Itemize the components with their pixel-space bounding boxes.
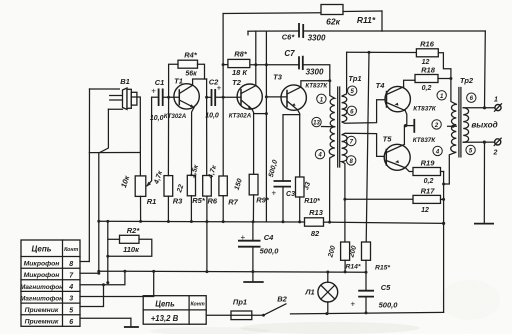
junction bus2 / row3 riser — [152, 270, 155, 273]
junction R17 right / right column — [442, 198, 445, 201]
wire bottom rail — [291, 312, 444, 314]
output terminal 1 — [495, 105, 501, 111]
wire terminal2 to ground — [483, 142, 485, 223]
junction bus1 / R7 bottom — [222, 220, 225, 223]
wire R8 left lead — [223, 64, 228, 66]
resistor R15* — [362, 242, 371, 260]
wire R19 right lead — [441, 171, 444, 173]
svg-text:10,0: 10,0 — [205, 113, 219, 120]
wire T3 base — [266, 96, 287, 98]
junction bus1 / R1 bottom — [139, 220, 142, 223]
wire row4 — [80, 271, 125, 285]
svg-text:КТ837К: КТ837К — [413, 137, 437, 144]
wire T2 emitter branch to T3 base column — [254, 113, 267, 115]
resistor R10* — [296, 177, 305, 197]
pin 1 (Тр1) — [317, 94, 326, 103]
wire output hot — [463, 107, 495, 109]
ground (right) — [474, 223, 494, 225]
capacitor C2 plates — [212, 89, 216, 106]
svg-text:C7: C7 — [284, 49, 295, 58]
svg-text:R2*: R2* — [127, 226, 141, 235]
junction row7 / left column — [97, 272, 100, 275]
wire C6 left end stub — [247, 31, 249, 35]
junction T2 emitter branch — [265, 112, 268, 115]
capacitor C1 plates — [159, 89, 163, 107]
wire C3 bottom — [282, 187, 284, 222]
junction bus2 / R14 bottom — [344, 270, 347, 273]
junction R2 loop — [106, 255, 109, 258]
svg-text:+: + — [272, 189, 277, 198]
resistor R4* — [178, 60, 198, 68]
switch В2 — [262, 314, 265, 317]
svg-text:КТ837К: КТ837К — [305, 83, 328, 90]
wire mic top riser to pin8 row — [88, 89, 90, 262]
wire R14 bottom — [344, 260, 346, 272]
junction Tр2 pin4 / right column — [442, 183, 445, 186]
wire T1 emitter to R5 — [192, 108, 195, 176]
wire C6 left lead — [248, 30, 299, 32]
wire T5 emitter to R19 — [406, 168, 413, 172]
resistor R19 — [413, 168, 441, 176]
wire mic right lead to R1 column — [132, 97, 141, 176]
svg-text:8: 8 — [69, 261, 73, 268]
svg-text:Приемник: Приемник — [25, 307, 59, 314]
svg-text:+: + — [151, 86, 156, 95]
connector table 2 (power) — [143, 296, 206, 325]
wire row8 — [80, 261, 89, 263]
transformer Tр2 primary winding — [444, 104, 457, 184]
junction row4 / row5 riser — [102, 283, 105, 286]
junction C6 / T3 base column — [265, 63, 268, 66]
wire R16 right lead — [438, 53, 456, 105]
fuse Пр1 — [231, 311, 252, 320]
svg-text:Микрофон: Микрофон — [24, 272, 60, 279]
svg-text:4: 4 — [317, 153, 322, 159]
wire T3 base column — [265, 31, 267, 222]
svg-text:В1: В1 — [120, 77, 130, 86]
svg-text:Микрофон: Микрофон — [24, 261, 60, 268]
wire tall column to R15 — [366, 52, 369, 242]
capacitor C4 bottom stub — [252, 247, 254, 272]
wire R17 feed — [345, 198, 413, 200]
svg-text:C5: C5 — [381, 283, 391, 292]
svg-text:3: 3 — [69, 296, 73, 303]
svg-text:R6: R6 — [208, 197, 218, 206]
wire R10 bottom — [299, 197, 301, 222]
resistor R9* — [249, 174, 258, 195]
svg-text:выход: выход — [471, 120, 497, 129]
wiper arrowhead — [146, 182, 151, 187]
junction bus1 / R10 bottom — [298, 220, 301, 223]
resistor R6 — [203, 176, 212, 197]
capacitor C5 top stub — [365, 272, 367, 291]
junction bus2 / C4 / ground — [251, 270, 254, 273]
transformer Tр1 secondary lower winding — [342, 133, 384, 242]
junction bus1 / R6 bottom — [205, 220, 208, 223]
junction bus2 / row4 riser — [123, 270, 126, 273]
wire fuse to switch — [252, 314, 264, 316]
potentiometer R1 — [135, 176, 146, 197]
transformer Tр1 secondary upper winding — [342, 52, 385, 123]
svg-text:R8*: R8* — [234, 50, 248, 59]
junction bus1 / R2 left column — [106, 220, 109, 223]
junction Tр1-pin5 / R16 rail — [368, 51, 371, 54]
pin 7 (Тр1) — [347, 136, 356, 145]
svg-text:6: 6 — [69, 319, 73, 326]
svg-text:R4*: R4* — [184, 51, 198, 60]
ground (row6) — [130, 318, 132, 327]
svg-text:18 К: 18 К — [232, 68, 248, 77]
svg-text:КТ837К: КТ837К — [413, 105, 437, 112]
junction bus1 / R9 bottom / C4 — [252, 220, 255, 223]
svg-text:КТ302А: КТ302А — [229, 113, 252, 120]
wire R9 bottom — [252, 195, 254, 222]
svg-text:Тр1: Тр1 — [348, 74, 361, 83]
wire R7 bottom — [222, 196, 224, 222]
svg-text:R13: R13 — [309, 208, 324, 217]
lamp Л1 — [327, 272, 329, 282]
wire R3 top column — [167, 97, 169, 175]
svg-text:10,0: 10,0 — [150, 115, 164, 122]
junction bus1 / Tр1 pin4 — [328, 221, 331, 224]
node terminal bar — [413, 119, 415, 133]
svg-text:13: 13 — [313, 121, 320, 127]
junction output 1 / feedback rail — [483, 106, 486, 109]
resistor R7 — [219, 176, 227, 196]
svg-text:C4: C4 — [264, 233, 274, 242]
svg-text:+13,2 В: +13,2 В — [151, 314, 179, 323]
svg-text:0,2: 0,2 — [424, 178, 434, 185]
resistor R13 — [305, 218, 324, 226]
microphone B1 — [90, 89, 123, 109]
wire C2 right lead to T2 base — [215, 96, 241, 98]
svg-text:C2: C2 — [209, 78, 219, 87]
resistor R8* — [228, 59, 250, 67]
junction bus1 right end — [442, 222, 445, 225]
wire T3 collector — [301, 81, 330, 87]
capacitor C4 plates — [238, 241, 261, 247]
svg-text:+: + — [351, 300, 356, 309]
wire right feedback rail down to output node — [484, 31, 487, 108]
svg-text:C1: C1 — [155, 78, 165, 87]
svg-text:62к: 62к — [326, 17, 340, 27]
svg-text:82: 82 — [311, 229, 320, 238]
svg-text:R10*: R10* — [304, 198, 320, 205]
wire corner down — [381, 11, 383, 31]
wire mid-node branch — [406, 125, 415, 127]
wire C6 right lead to corner — [303, 30, 382, 32]
svg-text:C3: C3 — [286, 191, 295, 198]
pin 13 (Тр1) — [312, 117, 321, 126]
wire C1 left lead — [152, 96, 159, 98]
wire top feedback rail left — [223, 12, 321, 15]
svg-text:В2: В2 — [277, 295, 287, 304]
transistor T2 — [237, 84, 262, 109]
wire horizontal y31 to right rail — [382, 30, 485, 32]
wire C7 right lead — [303, 65, 330, 81]
svg-text:Магнитофон: Магнитофон — [20, 295, 63, 302]
wire row6 — [80, 317, 131, 319]
svg-text:R16: R16 — [420, 40, 435, 49]
transistor T3 — [281, 85, 306, 110]
svg-text:R3: R3 — [173, 197, 183, 206]
wire bus2 — [99, 271, 366, 272]
transistor T1 — [174, 84, 199, 109]
capacitor C5 bottom stub — [365, 297, 367, 313]
svg-text:Т3: Т3 — [273, 73, 283, 82]
transistor T4 — [385, 86, 410, 111]
pin 4 (Тр1) — [315, 150, 324, 159]
pin 2 (Тр2 tap) — [432, 120, 441, 129]
wire R17 right lead — [441, 198, 444, 200]
svg-text:C6*: C6* — [282, 33, 296, 42]
capacitor C5 plates — [358, 291, 374, 297]
svg-text:R7: R7 — [228, 198, 238, 207]
junction bus1 / C3 bottom — [282, 220, 285, 223]
wire R3 bottom — [167, 196, 169, 221]
svg-text:110к: 110к — [123, 245, 140, 254]
svg-text:2: 2 — [493, 150, 498, 157]
wire rail to R16 — [347, 51, 417, 53]
wire row5 — [80, 285, 104, 307]
junction R18 right / Tр2 pin1 lead — [449, 77, 452, 80]
junction T3 base branch — [265, 95, 268, 98]
wire C3 branch — [283, 115, 300, 181]
pin 5 (Тр1) — [348, 86, 357, 95]
svg-text:500,0: 500,0 — [260, 247, 280, 256]
svg-text:1: 1 — [494, 97, 498, 104]
wire R1 top link — [89, 152, 140, 154]
junction Tр1 pin8 / R17 feed — [343, 198, 346, 201]
capacitor C3 plates — [274, 181, 292, 187]
wire R15 bottom — [365, 260, 367, 272]
svg-text:Т5: Т5 — [383, 135, 393, 144]
resistor R11* — [321, 5, 343, 15]
wire row3 — [80, 271, 154, 296]
wire R2 right lead — [108, 239, 152, 256]
svg-text:Пр1: Пр1 — [233, 298, 247, 307]
junction R8 left / R7 column — [222, 63, 225, 66]
connector table 1 — [21, 240, 80, 326]
junction T3 collector / C7 — [328, 79, 331, 82]
wire R1 bottom — [140, 196, 142, 221]
transformer Tр2 core — [458, 88, 460, 157]
junction T2 collector node — [254, 63, 257, 66]
junction Tр2 tap — [452, 125, 455, 128]
wire bus1 left segment — [99, 220, 305, 223]
svg-text:56к: 56к — [185, 71, 197, 78]
resistor R5* — [187, 175, 195, 196]
wire top rail right to corner — [343, 10, 382, 13]
wire R8 right / C7 left lead — [250, 64, 299, 66]
junction bus2 / R6 column — [205, 270, 208, 273]
svg-text:R17: R17 — [421, 187, 436, 196]
svg-text:5: 5 — [69, 307, 73, 314]
wire T3 emitter to R10 — [298, 110, 300, 177]
wire R4 left lead — [169, 64, 178, 97]
junction bus2 / lamp top — [326, 271, 329, 274]
pin 8 (Тр1) — [347, 156, 356, 165]
svg-text:2: 2 — [434, 123, 439, 129]
transformer Tр1 core — [337, 87, 339, 167]
junction rail / C5 bottom — [365, 311, 368, 314]
wire right column down to bottom rail — [443, 172, 445, 313]
wire T4 emitter / T5 collector column — [404, 111, 406, 145]
resistor R2* — [120, 235, 140, 243]
wire T4 collector to R18 — [404, 80, 415, 87]
wire R6 bottom to bus1 and bus2 — [206, 196, 208, 272]
svg-text:Т4: Т4 — [376, 81, 386, 90]
resistor R18 — [415, 75, 438, 83]
resistor R16 — [416, 49, 438, 57]
svg-text:12: 12 — [421, 207, 429, 214]
wire output return — [463, 141, 494, 143]
svg-text:Т1: Т1 — [174, 77, 183, 86]
junction bus2 left corner — [97, 270, 100, 273]
transformer Tр1 primary winding — [329, 81, 335, 222]
svg-text:Цепь: Цепь — [32, 245, 52, 254]
output terminal 2 — [495, 139, 501, 145]
capacitor C7 plates — [299, 56, 303, 70]
pin 6 (Тр1) — [347, 106, 356, 115]
svg-text:R9*: R9* — [256, 196, 270, 205]
wire R5 bottom — [190, 196, 192, 222]
wire T1 collector column / R6 top — [206, 79, 208, 176]
wire R2 left column — [107, 221, 109, 282]
svg-text:3300: 3300 — [306, 68, 324, 77]
junction rail / lamp bottom — [325, 312, 328, 315]
svg-text:R11*: R11* — [357, 15, 376, 25]
wire bus1 right segment — [324, 222, 444, 223]
wire Тр1 tap pin13 stub — [322, 126, 335, 128]
svg-text:Т2: Т2 — [232, 78, 242, 87]
junction bus2 / R15 / C5 — [365, 271, 368, 274]
svg-text:Магнитофон: Магнитофон — [20, 284, 63, 291]
svg-text:R1: R1 — [147, 197, 157, 206]
wire row7 — [80, 272, 99, 274]
svg-text:Тр2: Тр2 — [460, 76, 474, 85]
pin 4 (Тр2) — [433, 146, 442, 155]
svg-text:Приемник: Приемник — [25, 319, 59, 326]
wire R18 right lead — [438, 78, 451, 80]
junction bus1 / R3 bottom — [167, 220, 170, 223]
svg-text:Конт: Конт — [190, 302, 204, 308]
svg-text:R15*: R15* — [375, 265, 390, 272]
junction T2 base / R7-R8 divider — [222, 96, 225, 99]
svg-text:500,0: 500,0 — [379, 301, 399, 310]
junction bus1 / R5 bottom — [190, 220, 193, 223]
svg-text:R19: R19 — [421, 159, 436, 168]
svg-text:+: + — [241, 233, 246, 242]
wire table2 to fuse — [206, 314, 231, 316]
wire R2 left lead — [108, 238, 120, 240]
junction row4 / R2 column — [106, 281, 109, 284]
wire Тр2 tap stub — [448, 125, 457, 127]
wire mic bottom lead down — [99, 109, 109, 273]
wire R1 wiper from C1 — [147, 97, 152, 186]
svg-text:Конт: Конт — [64, 247, 78, 253]
junction T1 base node — [167, 96, 170, 99]
svg-text:R14*: R14* — [345, 264, 360, 271]
wire T1 collector — [193, 79, 207, 85]
svg-text:Л1: Л1 — [304, 288, 314, 297]
capacitor C6* plates — [299, 23, 303, 38]
svg-text:Цепь: Цепь — [155, 300, 175, 309]
wire R4 right lead — [198, 64, 205, 79]
svg-text:0,2: 0,2 — [422, 85, 432, 92]
svg-text:4: 4 — [435, 149, 440, 155]
junction T4 emitter / T5 collector — [404, 124, 407, 127]
pin 5 (Тр2) — [466, 145, 475, 154]
capacitor C4 top stub — [252, 222, 254, 241]
wire T2 collector riser — [255, 31, 257, 85]
resistor R17 — [413, 195, 441, 203]
pin 1 (Тр2) — [437, 91, 446, 100]
wire column R7/R8/T2-base node (from top rail) — [222, 14, 224, 177]
svg-text:3300: 3300 — [308, 34, 326, 43]
ground (center) — [252, 272, 254, 282]
transformer Tр2 secondary winding — [463, 108, 468, 143]
svg-text:R5*: R5* — [192, 196, 206, 205]
svg-text:4: 4 — [68, 284, 73, 291]
svg-text:КТ302А: КТ302А — [164, 113, 187, 120]
resistor R14* — [341, 242, 350, 260]
svg-text:R18: R18 — [421, 66, 436, 75]
wire C2 left lead — [207, 96, 212, 98]
junction bus1 left corner — [97, 220, 100, 223]
pin 6 (Тр2) — [467, 93, 476, 102]
transistor T5 — [384, 144, 410, 170]
wire T2 emitter to R9 — [252, 109, 254, 174]
junction C2 left / R6 column — [205, 96, 208, 99]
wire C1 right to T1 base — [163, 96, 180, 98]
resistor R3 — [164, 176, 173, 197]
junction output 2 / ground line — [483, 141, 486, 144]
